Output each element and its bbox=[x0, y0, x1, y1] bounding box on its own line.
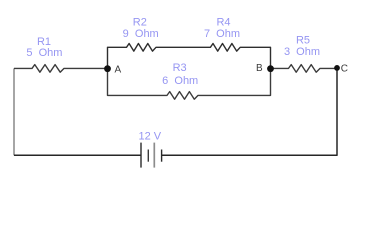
svg-text:9 Ohm: 9 Ohm bbox=[123, 28, 159, 40]
svg-text:R5: R5 bbox=[296, 35, 310, 47]
svg-text:5 Ohm: 5 Ohm bbox=[26, 47, 62, 59]
svg-text:B: B bbox=[256, 63, 263, 74]
svg-text:12 V: 12 V bbox=[138, 131, 161, 143]
svg-text:R4: R4 bbox=[216, 16, 230, 28]
svg-text:A: A bbox=[115, 65, 122, 76]
svg-text:6 Ohm: 6 Ohm bbox=[162, 75, 198, 87]
svg-text:3 Ohm: 3 Ohm bbox=[284, 46, 320, 58]
svg-text:C: C bbox=[341, 64, 348, 75]
svg-text:R2: R2 bbox=[133, 16, 147, 28]
svg-text:7 Ohm: 7 Ohm bbox=[204, 28, 240, 40]
svg-text:R3: R3 bbox=[173, 62, 187, 74]
